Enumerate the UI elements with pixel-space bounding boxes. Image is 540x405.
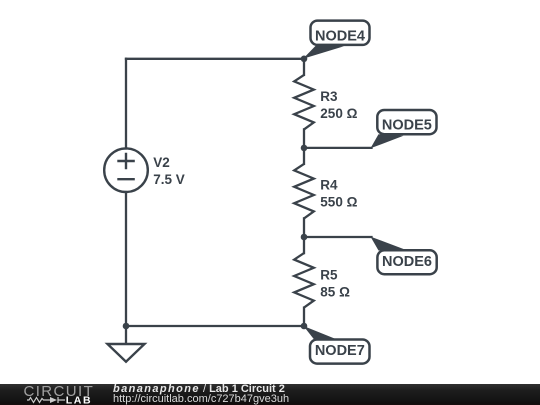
svg-text:R4: R4 <box>320 178 338 193</box>
wire right segment 4 <box>303 308 305 326</box>
resistor R3 <box>294 75 314 129</box>
svg-text:NODE6: NODE6 <box>382 254 432 270</box>
wire top horizontal <box>126 58 304 60</box>
footer title <box>113 384 285 395</box>
callout tail NODE4 <box>303 45 344 59</box>
node dot NODE4 <box>301 56 308 63</box>
svg-text:7.5 V: 7.5 V <box>153 172 185 187</box>
wire right segment 3 <box>303 218 305 253</box>
footer bar <box>0 384 540 405</box>
svg-text:R3: R3 <box>320 89 338 104</box>
svg-text:NODE5: NODE5 <box>382 117 432 133</box>
wire left lower <box>125 192 127 326</box>
resistor R4 <box>294 164 314 219</box>
callout box NODE5 <box>377 110 436 134</box>
callout tail NODE5 <box>371 134 404 148</box>
svg-text:250 Ω: 250 Ω <box>320 106 357 121</box>
node dot NODE6 <box>301 234 308 241</box>
ground <box>108 344 145 362</box>
svg-text:V2: V2 <box>153 155 170 170</box>
callout tail NODE7 <box>304 326 340 341</box>
svg-text:550 Ω: 550 Ω <box>320 195 357 210</box>
wire node6 stub <box>304 236 372 238</box>
wire node5 stub <box>304 147 372 149</box>
wire left upper <box>125 59 127 149</box>
svg-text:LAB: LAB <box>66 395 92 405</box>
wire right segment 1 <box>303 59 305 75</box>
node dot NODE5 <box>301 145 308 152</box>
svg-text:R5: R5 <box>320 268 338 283</box>
wire ground stub <box>125 326 127 344</box>
voltage source V2 <box>104 148 148 192</box>
callout box NODE7 <box>310 340 370 364</box>
resistor R5 <box>294 253 314 308</box>
callout tail NODE6 <box>371 237 404 251</box>
node dot NODE7 <box>301 323 308 330</box>
footer url <box>113 394 289 405</box>
callout box NODE6 <box>377 250 436 274</box>
svg-text:NODE4: NODE4 <box>315 28 365 44</box>
svg-text:NODE7: NODE7 <box>315 343 365 359</box>
callout box NODE4 <box>311 21 370 45</box>
wire right segment 2 <box>303 129 305 164</box>
svg-text:85 Ω: 85 Ω <box>320 285 350 300</box>
footer logo <box>0 384 110 405</box>
wire bottom horizontal <box>126 325 304 327</box>
node dot ground junction <box>123 323 130 330</box>
